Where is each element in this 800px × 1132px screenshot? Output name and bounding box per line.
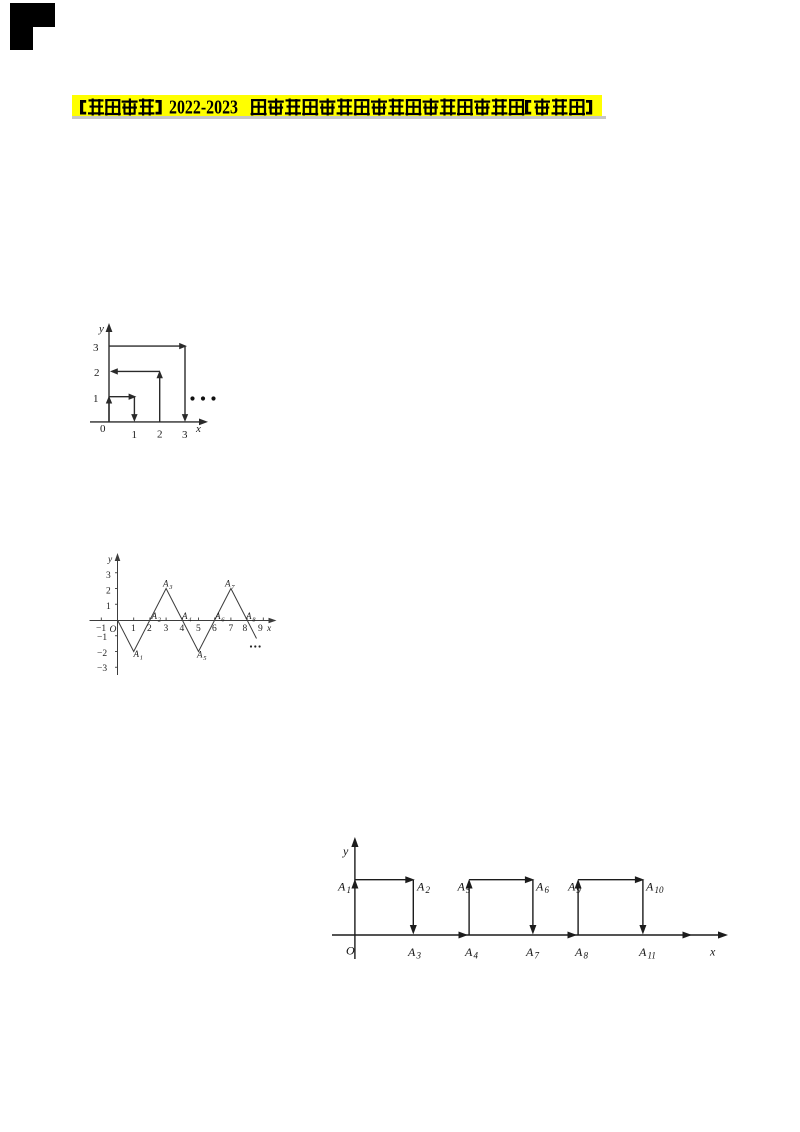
wire arrow (0,3)->(3,3) (109, 345, 181, 347)
svg-text:3: 3 (182, 429, 188, 439)
arrowhead up at A9 (575, 879, 582, 889)
svg-text:6: 6 (545, 885, 550, 895)
svg-text:6: 6 (212, 624, 217, 634)
svg-text:−1: −1 (97, 633, 107, 643)
svg-text:10: 10 (655, 885, 665, 895)
svg-text:A: A (638, 945, 647, 959)
arrowhead down at A11 (639, 925, 646, 935)
svg-text:O: O (346, 944, 355, 958)
wire A6->A7 (532, 880, 534, 930)
arrowhead right at A10 (635, 876, 645, 883)
svg-text:A: A (337, 880, 346, 894)
svg-text:A: A (416, 880, 425, 894)
wire arrow (0,1)->(1,1) (109, 396, 131, 398)
arrowhead down at A7 (529, 925, 536, 935)
y-axis arrowhead (351, 837, 358, 847)
svg-text:8: 8 (584, 951, 589, 961)
svg-text:A: A (245, 611, 252, 621)
wire A9->A10 (578, 879, 637, 881)
arrowhead up on y-axis at A1 (351, 879, 358, 889)
title banner (72, 95, 602, 116)
svg-text:8: 8 (243, 624, 248, 634)
svg-text:A: A (151, 611, 158, 621)
svg-text:A: A (224, 579, 231, 589)
svg-text:3: 3 (164, 624, 169, 634)
figure 3: staircase arrows on x-axis (319, 829, 735, 969)
arrowhead right at (3,3) (179, 343, 187, 349)
svg-text:A: A (464, 945, 473, 959)
x-axis (332, 934, 723, 936)
人教版 fake glyphs (534, 99, 550, 116)
svg-text:A: A (181, 611, 188, 621)
arrowhead right on axis after A11 (683, 932, 693, 939)
svg-text:A: A (535, 880, 544, 894)
corner mark block top (10, 3, 55, 27)
svg-text:x: x (709, 945, 716, 959)
y-axis (354, 842, 356, 959)
svg-text:3: 3 (416, 951, 422, 961)
svg-text:7: 7 (229, 624, 234, 634)
svg-text:1: 1 (140, 655, 143, 662)
wire arrow (2,2)->(0,2) (112, 370, 160, 372)
svg-text:A: A (133, 649, 140, 659)
svg-text:2022-2023: 2022-2023 (169, 97, 238, 119)
x-axis (90, 421, 204, 423)
y-axis arrowhead (115, 553, 121, 561)
svg-text:y: y (107, 555, 113, 565)
arrowhead right at (1,1) (129, 394, 137, 400)
svg-text:4: 4 (474, 951, 479, 961)
arrowhead down at A3 (410, 925, 417, 935)
y-axis arrowhead (106, 323, 113, 332)
wire arrow (0,0)->(0,1) (108, 399, 110, 422)
wire A2->A3 (412, 880, 414, 930)
svg-text:5: 5 (196, 624, 201, 634)
svg-text:4: 4 (180, 624, 185, 634)
y-axis (117, 557, 119, 675)
svg-text:A: A (214, 611, 221, 621)
svg-text:−3: −3 (97, 664, 107, 674)
svg-text:A: A (574, 945, 583, 959)
svg-text:A: A (457, 880, 466, 894)
svg-text:1: 1 (131, 624, 136, 634)
arrowhead down at (1,0) (131, 414, 137, 422)
svg-text:y: y (342, 844, 349, 858)
svg-text:11: 11 (648, 951, 656, 961)
corner mark block bottom (10, 27, 33, 50)
svg-text:9: 9 (258, 624, 263, 634)
arrowhead up at (0,1) (106, 396, 112, 404)
axis tick labels (93, 323, 201, 441)
svg-text:2: 2 (94, 367, 100, 379)
arrowhead left at (0,2) (110, 368, 118, 374)
wire A10->A11 (642, 880, 644, 930)
arrowhead right at A6 (525, 876, 535, 883)
wire A4->A5 (468, 885, 470, 935)
svg-text:2: 2 (157, 429, 163, 440)
学年七年级数学下册尖子生培优必刷题 fake glyphs (251, 99, 267, 116)
wire A8->A9 (577, 885, 579, 935)
wire arrow (3,3)->(3,0) (184, 346, 186, 419)
svg-text:A: A (196, 650, 203, 660)
svg-text:1: 1 (347, 885, 352, 895)
arrowhead down at (3,0) (182, 414, 188, 422)
svg-text:A: A (567, 880, 576, 894)
svg-text:3: 3 (93, 342, 99, 354)
svg-text:0: 0 (100, 423, 106, 435)
拔尖特训 fake glyphs (88, 99, 104, 116)
svg-text:A: A (162, 579, 169, 589)
bracket 【 (525, 100, 531, 115)
svg-text:−2: −2 (97, 649, 107, 659)
x-axis arrowhead (269, 618, 277, 624)
arrowhead right on axis at A4 (459, 932, 469, 939)
axis ticks (101, 573, 263, 668)
svg-text:3: 3 (168, 584, 173, 591)
svg-text:y: y (98, 323, 104, 335)
arrowhead up at A5 (466, 879, 473, 889)
svg-text:x: x (266, 624, 272, 634)
triangle wave polyline (118, 589, 257, 652)
arrowhead up at (2,2) (157, 370, 163, 378)
svg-text:2: 2 (147, 624, 152, 634)
arrowhead right on axis at A8 (568, 932, 578, 939)
svg-text:O: O (110, 625, 117, 635)
x-axis arrowhead (199, 419, 208, 426)
svg-text:3: 3 (106, 571, 111, 581)
ellipsis dots (250, 645, 252, 647)
banner shadow strip (72, 116, 606, 119)
wire arrow (1,1)->(1,0) (133, 397, 135, 419)
y-axis (108, 328, 110, 422)
svg-text:2: 2 (426, 885, 431, 895)
bracket 】 (586, 100, 592, 115)
svg-text:A: A (645, 880, 654, 894)
svg-text:1: 1 (106, 602, 111, 612)
wire A5->A6 (469, 879, 527, 881)
wire arrow (2,0)->(2,2) (159, 374, 161, 422)
svg-text:1: 1 (93, 393, 99, 405)
svg-text:A: A (407, 945, 416, 959)
figure 2: triangle wave graph (87, 550, 283, 682)
bracket 【 (80, 100, 86, 115)
svg-text:A: A (525, 945, 534, 959)
x-axis (90, 620, 272, 622)
svg-text:x: x (195, 423, 201, 435)
svg-text:9: 9 (576, 885, 581, 895)
wire A1->A2 (355, 879, 408, 881)
arrowhead right at A2 (405, 876, 415, 883)
x-axis arrowhead (718, 931, 728, 938)
ellipsis dots (190, 396, 194, 400)
figure 1: spiral arrow staircase graph (87, 320, 223, 439)
svg-text:1: 1 (132, 429, 138, 439)
svg-text:7: 7 (535, 951, 540, 961)
banner text (72, 93, 605, 121)
bracket 】 (156, 100, 162, 115)
svg-text:5: 5 (466, 885, 471, 895)
svg-text:2: 2 (106, 587, 111, 597)
